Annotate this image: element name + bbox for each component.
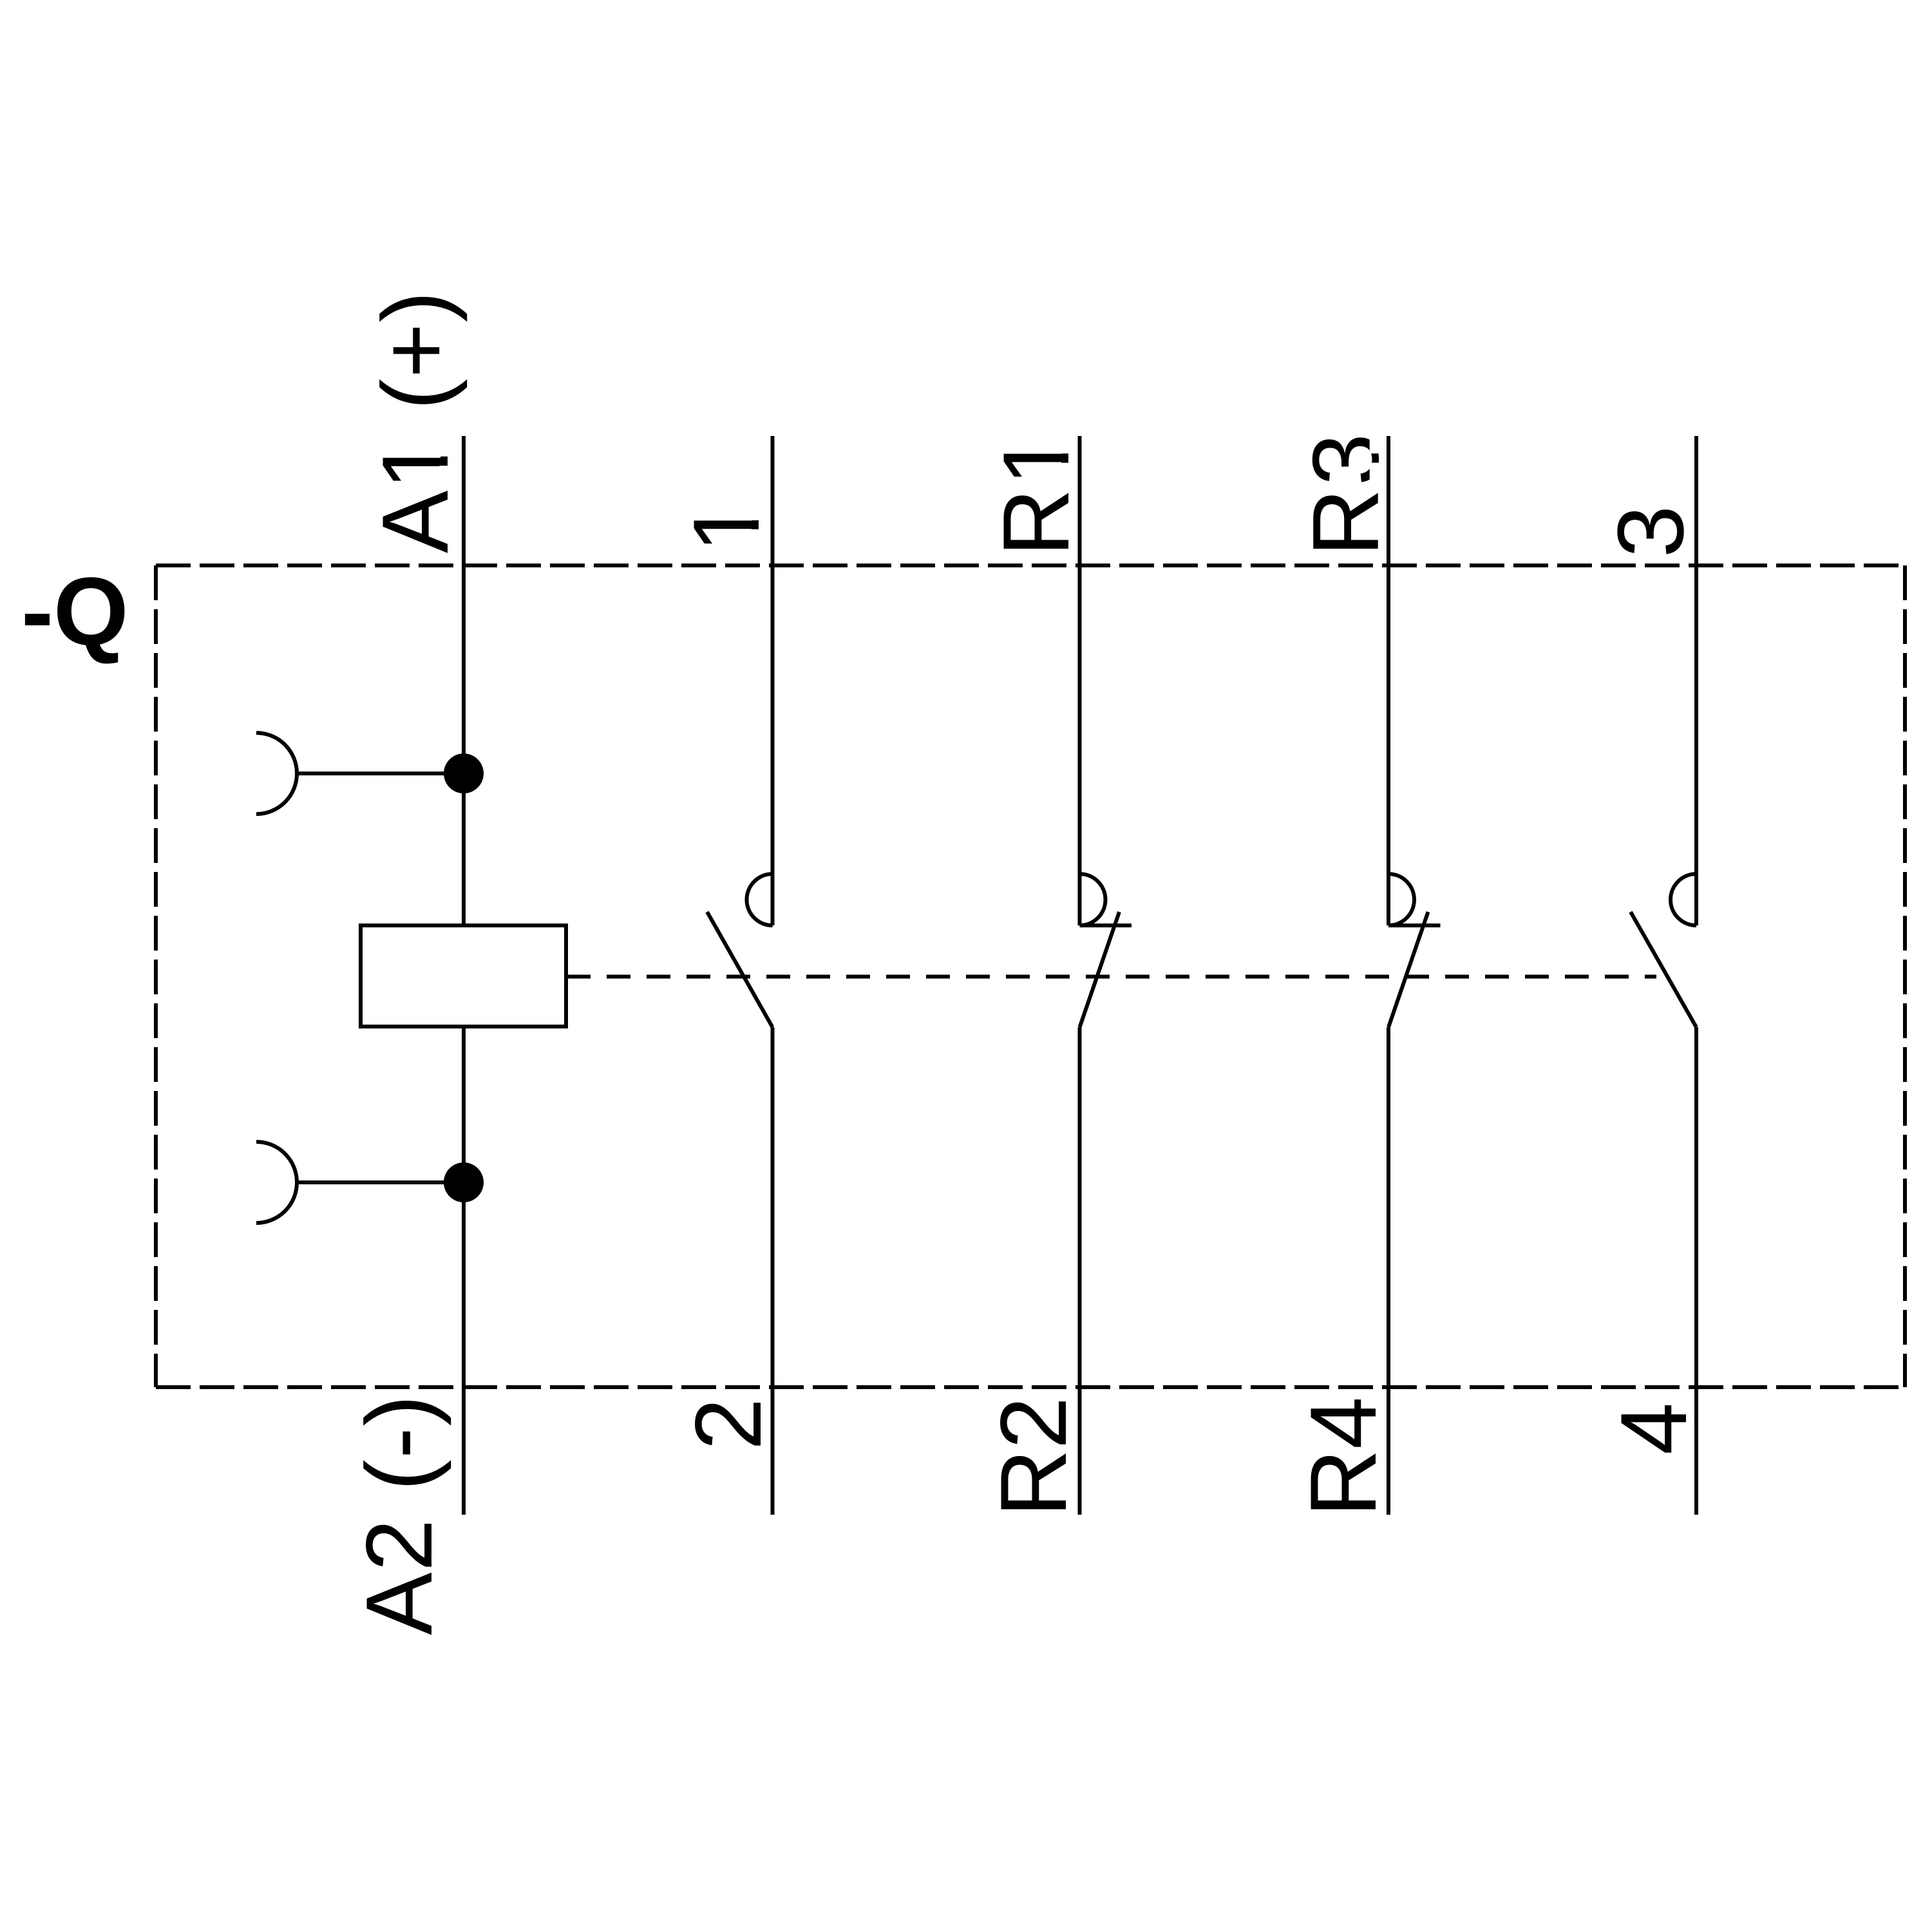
contact 3-4 fixed contact arc: [1671, 874, 1696, 925]
svg-text:A1 (+): A1 (+): [363, 291, 468, 553]
contactor outline dashed box Q: [156, 565, 1905, 1387]
svg-text:-Q: -Q: [21, 557, 129, 665]
contact 1-2 moving blade (NO): [707, 912, 773, 1027]
svg-text:R4: R4: [1291, 1397, 1396, 1517]
contact R1-R2 lower line: [1078, 1027, 1082, 1515]
node A2 junction dot: [444, 1162, 484, 1202]
svg-text:R2: R2: [981, 1397, 1086, 1517]
wire clip to node A2: [297, 1180, 464, 1184]
contact R3-R4 fixed contact arc: [1388, 874, 1414, 925]
contact R3-R4 lower line: [1387, 1027, 1390, 1515]
contact 1-2 lower line: [771, 1027, 775, 1515]
wire clip to node A1: [297, 772, 464, 775]
svg-text:R3: R3: [1293, 433, 1398, 556]
contact 3-4 lower line: [1694, 1027, 1698, 1515]
contact 3-4 upper line: [1694, 436, 1698, 925]
svg-text:1: 1: [674, 500, 779, 553]
contact R1-R2 moving blade (NC): [1080, 912, 1120, 1027]
contact R1-R2 upper line: [1078, 436, 1082, 925]
node A1 junction dot: [444, 753, 484, 793]
contact R3-R4 upper line: [1387, 436, 1390, 925]
mechanical linkage dashed line: [567, 975, 1656, 979]
glyph serif masks for digit 1 labels: [440, 437, 1379, 547]
svg-text:R1: R1: [983, 433, 1088, 556]
coil U1 rectangle: [361, 925, 566, 1027]
svg-text:3: 3: [1598, 506, 1703, 558]
wire coil terminal A1 upper: [462, 436, 466, 925]
contact R3-R4 moving blade (NC): [1388, 912, 1428, 1027]
contact R3-R4 seat line (NC): [1388, 923, 1441, 927]
contact 1-2 upper line: [771, 436, 775, 925]
svg-text:A2 (-): A2 (-): [346, 1395, 451, 1635]
svg-text:4: 4: [1601, 1403, 1706, 1455]
wire coil terminal A2 lower: [462, 1027, 466, 1515]
contact R1-R2 fixed contact arc: [1080, 874, 1106, 925]
contact 1-2 fixed contact arc: [747, 874, 773, 925]
clip arc lower (A2 junction): [256, 1142, 297, 1223]
contact 3-4 moving blade (NO): [1631, 912, 1696, 1027]
contact R1-R2 seat line (NC): [1080, 923, 1132, 927]
clip arc upper (A1 junction): [256, 733, 297, 814]
svg-text:2: 2: [676, 1398, 781, 1450]
